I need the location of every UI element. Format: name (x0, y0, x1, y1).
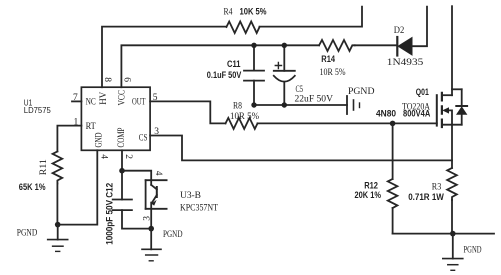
svg-text:HV: HV (99, 92, 109, 105)
svg-text:10K 5%: 10K 5% (240, 6, 267, 16)
pin name NC (86, 98, 96, 108)
C12 rotated labels (105, 183, 115, 245)
svg-text:LD7575: LD7575 (24, 105, 51, 115)
ground symbol middle (142, 229, 161, 261)
pin name OUT (132, 98, 146, 108)
svg-text:3: 3 (154, 127, 159, 137)
pin 7 NC stub (72, 100, 81, 102)
pin name CS (139, 134, 148, 144)
pin 1 number (74, 117, 79, 127)
resistor R8 (226, 118, 258, 129)
pin 4 GND wire down (58, 150, 98, 224)
svg-text:PGND: PGND (163, 230, 183, 240)
svg-text:CS: CS (139, 134, 148, 144)
ground wire under caps (254, 104, 347, 106)
wire R14 to D2 (355, 44, 397, 46)
PGND label (middle bottom) (163, 230, 183, 240)
ground symbol left (48, 225, 68, 252)
IC U1 box (81, 87, 150, 150)
capacitor C12 (113, 171, 151, 229)
svg-text:PGND: PGND (464, 245, 482, 255)
R11 labels (19, 159, 49, 192)
svg-text:22uF 50V: 22uF 50V (295, 95, 334, 105)
svg-text:KPC357NT: KPC357NT (180, 204, 218, 214)
junction dot left ground (55, 222, 61, 228)
diode D2 1N4935 (397, 7, 427, 56)
svg-text:7: 7 (73, 93, 78, 103)
pin 8 number rotated (102, 77, 112, 82)
pin 3 CS wire (150, 136, 452, 161)
svg-text:OUT: OUT (132, 98, 146, 108)
svg-text:R14: R14 (321, 54, 335, 64)
svg-text:3: 3 (142, 216, 152, 221)
svg-text:U3-B: U3-B (180, 191, 201, 201)
wire COMP to opto collector (122, 171, 151, 185)
svg-text:1: 1 (74, 117, 79, 127)
pin 5 number (153, 93, 158, 103)
PGND label (middle) (348, 87, 375, 97)
pin name RT (86, 122, 96, 132)
pin 2 COMP wire down (121, 150, 123, 170)
resistor R4 (226, 22, 259, 34)
C5 labels (295, 85, 334, 105)
junction dots on VCC rail (251, 43, 287, 48)
resistor R14 (319, 40, 355, 51)
PGND label (left) (17, 229, 38, 239)
junction dot opto emitter (148, 226, 154, 232)
capacitor C5 electrolytic (274, 45, 295, 105)
pin 7 number (73, 93, 78, 103)
svg-text:20K 1%: 20K 1% (355, 190, 382, 200)
pin name HV rotated (99, 92, 109, 105)
pin 4 number rotated (99, 154, 109, 159)
pin 5 OUT wire to R8 (150, 101, 225, 123)
svg-text:COMP: COMP (117, 128, 127, 148)
resistor R12 (388, 123, 398, 233)
svg-text:1N4935: 1N4935 (387, 58, 424, 68)
junction dot bottom right (450, 231, 456, 237)
junction dot COMP node (119, 168, 125, 174)
svg-text:R12: R12 (364, 180, 378, 190)
pin 3 number (154, 127, 159, 137)
svg-text:PGND: PGND (17, 229, 38, 239)
VCC rail wire (254, 44, 319, 46)
Q01 body diode triangle (456, 106, 467, 115)
gate wire R8 to Q01 (258, 122, 437, 124)
svg-text:RT: RT (86, 122, 96, 132)
svg-text:D2: D2 (394, 26, 405, 36)
Q01 body diode (456, 89, 467, 124)
R8 labels (230, 102, 259, 122)
svg-text:8: 8 (102, 77, 112, 82)
PGND sideways ground symbol (347, 96, 360, 114)
svg-text:GND: GND (94, 132, 104, 147)
opto U3-B phototransistor (146, 180, 167, 228)
pin 8 HV wire up to R4 (102, 27, 226, 88)
svg-text:6: 6 (121, 77, 131, 82)
R12 labels (355, 180, 382, 200)
C11 labels (207, 59, 242, 80)
svg-text:R4: R4 (224, 8, 233, 18)
Q01 body arrow (442, 107, 449, 113)
D2 labels (387, 26, 424, 68)
svg-text:5: 5 (153, 93, 158, 103)
svg-text:Q01: Q01 (416, 87, 429, 97)
svg-text:10R 5%: 10R 5% (230, 112, 259, 122)
opto pin 4 rotated (153, 171, 163, 176)
R3 labels (408, 183, 444, 202)
C5 plus sign (275, 62, 281, 68)
PGND label (bottom right) (464, 245, 482, 255)
Q01 labels (376, 87, 431, 119)
svg-text:4: 4 (99, 154, 109, 159)
wire R4 to top stub (260, 7, 363, 27)
svg-text:C5: C5 (296, 85, 304, 95)
svg-text:C11: C11 (227, 59, 241, 69)
U3-B labels (180, 191, 218, 214)
R14 labels (320, 54, 346, 78)
pin name GND rotated (94, 132, 104, 147)
opto pin 3 rotated (142, 216, 152, 221)
pin name VCC rotated (118, 90, 128, 106)
pin 1 RT wire (57, 126, 81, 152)
opto emitter arrowhead (151, 200, 156, 206)
svg-text:4: 4 (153, 171, 163, 176)
svg-text:PGND: PGND (348, 87, 375, 97)
transistor Q01 MOSFET (437, 6, 462, 127)
pin 6 number rotated (121, 77, 131, 82)
svg-text:65K 1%: 65K 1% (19, 182, 46, 192)
pin name COMP rotated (117, 128, 127, 148)
svg-text:R11: R11 (39, 159, 49, 175)
svg-text:R8: R8 (233, 102, 242, 112)
R4 labels (224, 6, 267, 17)
resistor R3 (447, 125, 457, 234)
ground symbol bottom right (443, 234, 463, 271)
svg-text:VCC: VCC (118, 90, 128, 106)
pin 2 number rotated (123, 154, 133, 159)
U1 reference label (24, 97, 51, 115)
svg-text:2: 2 (123, 154, 133, 159)
svg-text:0.1uF 50V: 0.1uF 50V (207, 70, 242, 80)
svg-text:NC: NC (86, 98, 96, 108)
junction dots on cap ground wire (251, 102, 287, 107)
svg-text:10R 5%: 10R 5% (320, 68, 346, 78)
svg-text:800V4A: 800V4A (403, 109, 431, 119)
svg-text:0.71R 1W: 0.71R 1W (408, 192, 444, 202)
resistor R11 (53, 152, 63, 225)
bottom right wire (393, 233, 494, 235)
pin 6 VCC wire up to rail (121, 45, 254, 87)
svg-text:4N80: 4N80 (376, 109, 396, 119)
junction dot gate/R12 (390, 121, 396, 127)
svg-text:1000pF 50V C12: 1000pF 50V C12 (105, 183, 115, 245)
capacitor C11 (244, 45, 264, 105)
